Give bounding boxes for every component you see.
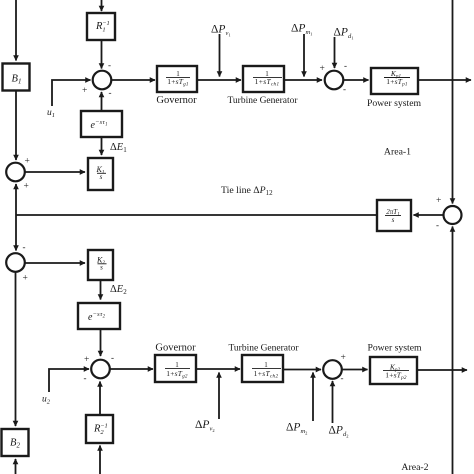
wire B1 to summing S3 [15, 91, 17, 161]
wire S2 to governor G2 [110, 368, 153, 370]
block power system P1 [371, 68, 418, 94]
svg-text:Turbine Generator: Turbine Generator [228, 344, 299, 354]
summing junction S2 [91, 360, 110, 379]
label P2 fraction [383, 362, 409, 381]
block governor G2 [155, 355, 196, 382]
wire dPv2 input [218, 373, 220, 420]
block power system P2 [370, 357, 417, 384]
svg-text:e−sτ1: e−sτ1 [91, 119, 108, 131]
svg-text:+: + [82, 86, 87, 96]
svg-text:-: - [341, 373, 344, 383]
wire df1 down to summing S6 [452, 0, 454, 204]
wire P2 output df2 [417, 369, 467, 371]
block B1 [3, 64, 30, 91]
svg-text:Power system: Power system [367, 343, 422, 354]
block delay e1 [81, 111, 122, 137]
wire T1 to summing S5 [284, 79, 322, 81]
wire S3 to K1s [25, 171, 85, 173]
wire e1 up into S1 [101, 92, 103, 111]
wire dPv1 input [219, 34, 221, 77]
svg-text:-: - [344, 61, 347, 71]
label K1s fraction [95, 165, 106, 181]
wire e1 to K1s labeled dE1 [101, 137, 103, 155]
wire S1 to governor G1 [111, 79, 155, 81]
svg-text:s: s [100, 264, 103, 272]
wire P1 output df1 [418, 79, 471, 81]
wire df2 up to S6 [452, 227, 454, 474]
svg-text:+: + [25, 157, 30, 167]
wire frequency f2 into B2 bottom [15, 459, 17, 474]
summing junction S7 [323, 360, 342, 379]
block delay e2 [78, 303, 120, 329]
wire tie line horizontal [16, 214, 377, 216]
wire e2 down into S2 [100, 329, 102, 356]
svg-text:1: 1 [175, 361, 179, 369]
wire T2 to summing S7 [283, 369, 321, 371]
svg-text:Turbine Generator: Turbine Generator [227, 96, 298, 106]
summing junction S6 [444, 206, 462, 224]
svg-text:Area-2: Area-2 [401, 462, 428, 473]
block K1s [88, 158, 113, 190]
wire R1inv to S1 [101, 40, 103, 69]
block turbine T1 [243, 66, 284, 92]
wire dPm1 input [303, 34, 305, 77]
svg-text:ΔPv1: ΔPv1 [211, 24, 231, 38]
svg-text:R1−1: R1−1 [95, 20, 110, 34]
block governor G1 [157, 66, 197, 92]
svg-text:-: - [111, 353, 114, 363]
svg-text:-: - [436, 220, 439, 230]
svg-text:1+sTp2: 1+sTp2 [385, 370, 407, 381]
svg-text:ΔPv2: ΔPv2 [195, 419, 215, 433]
label G2 fraction [165, 361, 190, 379]
svg-text:+: + [84, 355, 89, 365]
svg-text:+: + [24, 182, 29, 192]
label tie fraction 2piT1/s [385, 208, 401, 224]
label T2 fraction [252, 361, 281, 379]
svg-text:1+sTp1: 1+sTp1 [386, 77, 408, 88]
wire u1 input [52, 80, 91, 106]
svg-text:1+sTg2: 1+sTg2 [166, 369, 188, 380]
wire dPd1 input [334, 37, 336, 68]
svg-text:Tie line ΔP12: Tie line ΔP12 [221, 185, 273, 197]
svg-text:ΔE1: ΔE1 [110, 142, 127, 154]
svg-text:-: - [23, 242, 26, 252]
label P1 fraction [384, 69, 410, 88]
svg-text:Area-1: Area-1 [384, 147, 411, 158]
block turbine T2 [242, 355, 283, 382]
svg-text:ΔPd1: ΔPd1 [334, 27, 354, 41]
svg-text:ΔPm1: ΔPm1 [291, 23, 312, 37]
label K2s fraction [96, 255, 107, 271]
svg-text:s: s [100, 173, 103, 181]
block K2s [88, 250, 113, 280]
summing junction S4 [6, 253, 25, 272]
block tie 2piT1/s [377, 200, 411, 231]
svg-text:R2−1: R2−1 [93, 423, 108, 437]
svg-text:-: - [343, 84, 346, 94]
svg-text:+: + [320, 64, 325, 74]
svg-text:1+sTg1: 1+sTg1 [167, 77, 189, 88]
wire S5 to power system P1 [343, 79, 368, 81]
wire dPm2 input [312, 373, 314, 422]
wire S7 to power system P2 [342, 369, 368, 371]
svg-text:1: 1 [264, 361, 268, 369]
wire S6 to tie block [414, 214, 444, 216]
svg-text:u2: u2 [42, 395, 51, 406]
svg-text:B2: B2 [10, 438, 20, 450]
wire frequency into R2inv bottom [99, 446, 101, 474]
svg-text:+: + [23, 274, 28, 284]
block R1inv [87, 13, 115, 40]
wire tie feedback up into S3 [15, 184, 17, 215]
wire R2inv up to S2 [99, 382, 101, 416]
svg-text:ΔPm2: ΔPm2 [286, 422, 307, 436]
svg-text:Governor: Governor [156, 95, 197, 106]
wire S4 down to B2 [15, 272, 17, 426]
svg-text:-: - [108, 60, 111, 70]
wire frequency f1 into B1 [15, 0, 17, 61]
svg-text:u1: u1 [47, 108, 55, 119]
summing junction S5 [325, 71, 344, 90]
summing junction S1 [93, 71, 112, 90]
svg-text:B1: B1 [12, 74, 22, 86]
svg-text:1+sTch2: 1+sTch2 [254, 369, 279, 380]
svg-text:Governor: Governor [155, 343, 196, 354]
svg-text:+: + [341, 353, 346, 363]
label T1 fraction [253, 70, 282, 87]
block B2 [2, 429, 29, 456]
wire tie feedback down into S4 [15, 215, 17, 251]
svg-text:-: - [84, 373, 87, 383]
svg-text:1+sTch1: 1+sTch1 [255, 77, 280, 88]
wire frequency into R1inv [101, 0, 103, 11]
svg-text:Power system: Power system [367, 98, 422, 109]
svg-text:s: s [392, 216, 395, 224]
svg-text:ΔE2: ΔE2 [110, 284, 127, 296]
svg-text:e−sτ2: e−sτ2 [88, 311, 106, 323]
svg-text:-: - [109, 88, 112, 98]
svg-text:ΔPd2: ΔPd2 [329, 425, 349, 439]
summing junction S3 [6, 163, 25, 182]
wire dPd2 input [332, 381, 334, 423]
wire K2s to e2 labeled dE2 [100, 280, 102, 300]
wire G1 to turbine T1 [197, 79, 241, 81]
svg-text:+: + [436, 196, 441, 206]
label G1 fraction [166, 70, 190, 87]
block R2inv [86, 415, 113, 443]
wire S4 to K2s [25, 262, 85, 264]
wire u2 input [49, 369, 89, 392]
wire G2 to turbine T2 [196, 368, 240, 370]
